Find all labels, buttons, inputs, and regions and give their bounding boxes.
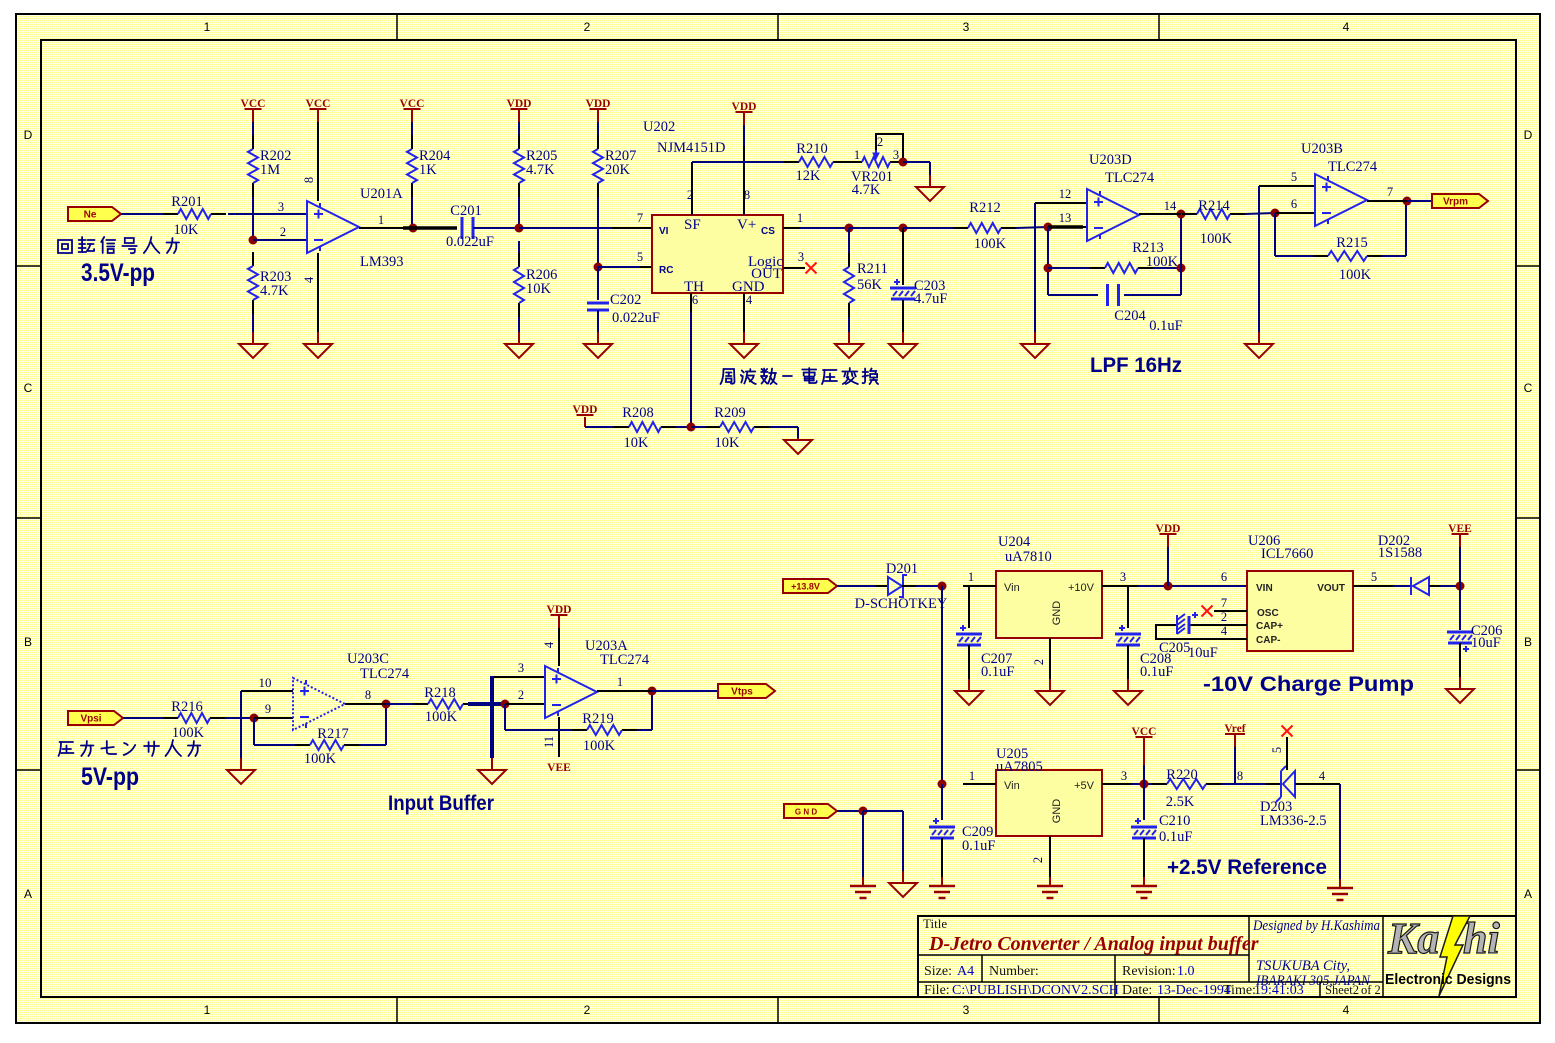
wire U203D output bbox=[1139, 213, 1181, 215]
node inverting input U201A bbox=[249, 236, 258, 245]
svg-text:1: 1 bbox=[617, 675, 623, 689]
svg-text:100K: 100K bbox=[1200, 231, 1233, 247]
wire R205 to node bbox=[518, 197, 520, 227]
svg-text:12: 12 bbox=[1059, 187, 1072, 201]
wire node to U203A pin2 bbox=[505, 703, 545, 705]
svg-text:-10V Charge Pump: -10V Charge Pump bbox=[1203, 673, 1414, 696]
pin 4 U201A bbox=[317, 253, 319, 332]
svg-text:100K: 100K bbox=[1339, 267, 1372, 283]
resistor R209 bbox=[705, 426, 720, 428]
ground (C203) bbox=[902, 332, 904, 344]
svg-text:B: B bbox=[24, 635, 32, 649]
op-amp U203C (dotted) bbox=[293, 678, 345, 730]
svg-text:8: 8 bbox=[1237, 769, 1243, 783]
resistor R210 bbox=[784, 161, 799, 163]
svg-text:GND: GND bbox=[1051, 799, 1063, 824]
svg-text:LPF 16Hz: LPF 16Hz bbox=[1090, 354, 1182, 377]
svg-text:RC: RC bbox=[659, 265, 673, 276]
svg-text:U203C: U203C bbox=[347, 651, 389, 667]
title block frame bbox=[918, 916, 1516, 997]
svg-text:TSUKUBA City,: TSUKUBA City, bbox=[1256, 958, 1350, 974]
wire U201A output bbox=[359, 227, 403, 229]
wire output to Vrpm bbox=[1407, 200, 1432, 202]
ground (C206) bbox=[1459, 677, 1461, 689]
U204 pin1 lead bbox=[963, 585, 996, 587]
svg-text:0.1uF: 0.1uF bbox=[1159, 829, 1192, 845]
wire node to R209 bbox=[691, 426, 705, 428]
wire D201 to node bbox=[916, 585, 942, 587]
svg-text:OSC: OSC bbox=[1257, 608, 1279, 619]
svg-text:R218: R218 bbox=[424, 685, 455, 701]
wire R216 to node bbox=[225, 717, 254, 719]
border row ticks bbox=[16, 265, 41, 267]
svg-text:G N D: G N D bbox=[795, 808, 817, 817]
node U203B pin6 bbox=[1271, 209, 1280, 218]
wire node to U202 pin5 bbox=[598, 266, 640, 268]
svg-text:TLC274: TLC274 bbox=[1328, 159, 1378, 175]
svg-text:R216: R216 bbox=[171, 699, 202, 715]
svg-text:Vrpm: Vrpm bbox=[1443, 197, 1468, 208]
wire to R212 bbox=[903, 227, 953, 229]
U204 pin3 lead bbox=[1102, 585, 1138, 587]
svg-text:13: 13 bbox=[1059, 211, 1072, 225]
svg-text:4.7uF: 4.7uF bbox=[914, 291, 947, 307]
U202 pin6 TH down bbox=[690, 293, 692, 312]
svg-text:Ne: Ne bbox=[84, 210, 97, 221]
diode D202 1S1588 bbox=[1393, 585, 1411, 587]
wire R204 to output node bbox=[411, 197, 413, 228]
svg-text:12K: 12K bbox=[796, 168, 822, 184]
wire U203C output bbox=[345, 703, 386, 705]
node R213 right bbox=[1177, 264, 1186, 273]
op-amp U203B bbox=[1315, 174, 1367, 226]
svg-text:10uF: 10uF bbox=[1188, 645, 1218, 661]
svg-text:D201: D201 bbox=[886, 561, 918, 577]
ground (VR201) bbox=[929, 175, 931, 187]
resistor R216 bbox=[163, 717, 178, 719]
node U203A pin2 bbox=[501, 700, 510, 709]
svg-text:10K: 10K bbox=[715, 435, 741, 451]
ground (R211) bbox=[848, 332, 850, 344]
svg-text:R217: R217 bbox=[317, 726, 348, 742]
resistor R208 bbox=[614, 426, 629, 428]
node RC bbox=[594, 263, 603, 272]
svg-text:R201: R201 bbox=[171, 194, 202, 210]
wire D202 to VEE node bbox=[1440, 585, 1460, 587]
svg-text:C: C bbox=[1524, 381, 1533, 395]
C205 bracket to pin4 bbox=[1156, 625, 1247, 639]
node TH divider bbox=[687, 423, 696, 432]
svg-text:R208: R208 bbox=[622, 405, 653, 421]
svg-text:7: 7 bbox=[1221, 596, 1227, 610]
node VCC tap bbox=[1140, 780, 1149, 789]
svg-text:3: 3 bbox=[798, 250, 804, 264]
svg-text:Number:: Number: bbox=[989, 964, 1039, 979]
wire Vpsi to R216 bbox=[123, 717, 163, 719]
svg-text:100K: 100K bbox=[304, 751, 337, 767]
svg-text:NJM4151D: NJM4151D bbox=[657, 140, 725, 156]
resistor R201 bbox=[163, 213, 178, 215]
wire R208 to TH node bbox=[676, 426, 691, 428]
U203A pin11 wire bbox=[558, 717, 560, 757]
svg-text:TLC274: TLC274 bbox=[600, 652, 650, 668]
earth ground (C210) bbox=[1143, 877, 1145, 886]
wire pin10 to ground bbox=[240, 691, 242, 758]
resistor R202 bbox=[252, 135, 254, 149]
node U203C output bbox=[382, 700, 391, 709]
capacitor C209 bbox=[941, 784, 943, 820]
svg-text:CAP+: CAP+ bbox=[1256, 621, 1283, 632]
border column ticks bbox=[396, 14, 398, 40]
wire R218 to pin2 node (thick) bbox=[468, 702, 505, 706]
svg-text:0.1uF: 0.1uF bbox=[1149, 318, 1182, 334]
svg-text:6: 6 bbox=[1221, 570, 1227, 584]
wire R203 to ground bbox=[252, 314, 254, 332]
wire R207 to RC node bbox=[597, 197, 599, 267]
svg-text:3: 3 bbox=[963, 1003, 970, 1017]
wire R220 to D203 bbox=[1221, 783, 1266, 785]
svg-text:+10V: +10V bbox=[1068, 582, 1095, 594]
svg-text:0.1uF: 0.1uF bbox=[981, 664, 1014, 680]
capacitor C202 bbox=[597, 267, 599, 300]
wire node to U203D pin13 (thick) bbox=[1048, 225, 1083, 229]
svg-text:100K: 100K bbox=[974, 236, 1007, 252]
node VDD tap bbox=[1164, 582, 1173, 591]
svg-text:4: 4 bbox=[746, 293, 753, 307]
ground (R206) bbox=[518, 332, 520, 344]
svg-text:U203D: U203D bbox=[1089, 152, 1132, 168]
svg-text:2: 2 bbox=[518, 688, 524, 702]
svg-text:U202: U202 bbox=[643, 119, 675, 135]
capacitor C205 bbox=[1188, 624, 1247, 626]
op-amp U201A bbox=[307, 201, 359, 253]
wire rail down to U205 bbox=[941, 586, 943, 784]
svg-text:10: 10 bbox=[259, 675, 272, 690]
svg-text:LM336-2.5: LM336-2.5 bbox=[1260, 813, 1326, 829]
wire pin4 to ground bbox=[1339, 784, 1341, 879]
svg-text:4: 4 bbox=[1343, 1003, 1350, 1017]
wire C201 to node bbox=[473, 227, 519, 229]
svg-text:7: 7 bbox=[1387, 185, 1393, 199]
svg-text:CAP-: CAP- bbox=[1256, 635, 1280, 646]
svg-text:C204: C204 bbox=[1114, 308, 1146, 324]
U205 pin3 lead bbox=[1102, 783, 1132, 785]
svg-text:R212: R212 bbox=[969, 200, 1000, 216]
wire U203B output bbox=[1367, 200, 1407, 202]
op-amp U203D bbox=[1087, 189, 1139, 241]
svg-text:CS: CS bbox=[761, 226, 775, 237]
svg-text:8: 8 bbox=[365, 688, 371, 702]
capacitor C204 bbox=[1048, 294, 1098, 296]
feedback vertical U203D bbox=[1047, 227, 1049, 295]
svg-text:2: 2 bbox=[1031, 857, 1045, 863]
resistor R211 bbox=[848, 228, 850, 253]
svg-text:R219: R219 bbox=[582, 711, 613, 727]
ground triangle (GND flag) bbox=[902, 871, 904, 883]
svg-text:6: 6 bbox=[1291, 197, 1297, 211]
wire flag to D201 bbox=[837, 585, 876, 587]
U203B pin5 wire bbox=[1259, 185, 1315, 187]
svg-text:C210: C210 bbox=[1159, 813, 1190, 829]
svg-text:D: D bbox=[24, 128, 33, 142]
net flag Ne bbox=[68, 207, 121, 221]
net flag Vtps bbox=[718, 684, 775, 698]
U206 pin5 lead bbox=[1353, 585, 1393, 587]
svg-text:VOUT: VOUT bbox=[1317, 583, 1345, 594]
svg-text:TLC274: TLC274 bbox=[1105, 170, 1155, 186]
svg-text:1K: 1K bbox=[419, 162, 437, 178]
resistor R214 bbox=[1182, 213, 1197, 215]
resistor R206 bbox=[518, 253, 520, 267]
svg-text:R210: R210 bbox=[796, 141, 827, 157]
svg-text:uA7810: uA7810 bbox=[1005, 549, 1052, 565]
svg-text:Revision:: Revision: bbox=[1122, 964, 1176, 979]
svg-text:C201: C201 bbox=[450, 203, 481, 219]
resistor R205 bbox=[518, 135, 520, 149]
svg-text:1M: 1M bbox=[260, 162, 280, 178]
wire pin3 to ground (thick) bbox=[490, 676, 494, 758]
svg-text:A4: A4 bbox=[957, 964, 974, 979]
svg-text:5V-pp: 5V-pp bbox=[81, 763, 139, 791]
feedback R219 loop bbox=[504, 704, 506, 730]
svg-text:Electronic Designs: Electronic Designs bbox=[1385, 971, 1511, 988]
svg-text:VEE: VEE bbox=[547, 762, 571, 774]
resistor R219 bbox=[572, 729, 587, 731]
wire C202 to ground bbox=[597, 310, 599, 332]
VR201 wiper arrow bbox=[875, 150, 877, 158]
ground (R203) bbox=[252, 332, 254, 344]
wire R202 to node bbox=[252, 197, 254, 240]
ground (C207) bbox=[968, 679, 970, 691]
node VEE rail bbox=[1456, 582, 1465, 591]
wire node to U203B pin6 bbox=[1275, 212, 1315, 214]
wire VDD to pin4 bbox=[558, 628, 560, 666]
svg-text:1: 1 bbox=[968, 570, 974, 584]
ground (U203B pin5) bbox=[1258, 332, 1260, 344]
svg-text:10K: 10K bbox=[174, 222, 200, 238]
svg-text:3: 3 bbox=[518, 661, 524, 675]
U204 pin2 lead bbox=[1049, 638, 1051, 679]
svg-text:2: 2 bbox=[1032, 659, 1046, 665]
svg-text:2: 2 bbox=[584, 20, 591, 34]
svg-text:Input Buffer: Input Buffer bbox=[388, 792, 494, 815]
svg-text:3.5V-pp: 3.5V-pp bbox=[81, 259, 155, 287]
wire pin5 to ground bbox=[1258, 186, 1260, 332]
svg-text:GND: GND bbox=[1051, 601, 1063, 626]
svg-text:+5V: +5V bbox=[1074, 780, 1095, 792]
resistor R220 bbox=[1152, 783, 1167, 785]
svg-text:3: 3 bbox=[963, 20, 970, 34]
svg-text:4: 4 bbox=[1221, 624, 1228, 638]
svg-text:R214: R214 bbox=[1198, 198, 1230, 214]
svg-text:0.1uF: 0.1uF bbox=[962, 838, 995, 854]
svg-text:D-SCHOTKEY: D-SCHOTKEY bbox=[855, 596, 948, 612]
wire pin3 to node bbox=[1132, 783, 1152, 785]
svg-text:1: 1 bbox=[378, 213, 384, 227]
svg-text:B: B bbox=[1524, 635, 1532, 649]
svg-text:2.5K: 2.5K bbox=[1166, 794, 1195, 810]
resistor R213 bbox=[1048, 267, 1090, 269]
svg-text:IBARAKI 305,JAPAN: IBARAKI 305,JAPAN bbox=[1255, 973, 1371, 989]
annotation frequency-voltage (kanji) bbox=[721, 368, 879, 384]
svg-text:U204: U204 bbox=[998, 534, 1031, 550]
ground (U203D pin12) bbox=[1034, 332, 1036, 344]
svg-text:U201A: U201A bbox=[360, 186, 403, 202]
svg-text:100K: 100K bbox=[583, 738, 616, 754]
wire node to C201 (thick) bbox=[403, 226, 457, 230]
wire R214 to pin6 node bbox=[1245, 213, 1275, 214]
op-amp U203A bbox=[545, 666, 597, 718]
ground (U201A pin4) bbox=[317, 332, 319, 344]
svg-text:TLC274: TLC274 bbox=[360, 666, 410, 682]
svg-text:Time:: Time: bbox=[1223, 983, 1256, 998]
earth ground (GND flag) bbox=[862, 877, 864, 886]
ground (U203C pin10) bbox=[240, 758, 242, 770]
svg-text:Size:: Size: bbox=[924, 964, 952, 979]
svg-text:R215: R215 bbox=[1336, 235, 1367, 251]
svg-text:14: 14 bbox=[1164, 199, 1177, 213]
diode D201 D-SCHOTKEY bbox=[876, 585, 888, 587]
net flag +13.8V bbox=[783, 579, 837, 593]
svg-text:4: 4 bbox=[1319, 769, 1326, 783]
svg-text:100K: 100K bbox=[425, 709, 458, 725]
node VR201 out bbox=[899, 158, 908, 167]
node VI divider bbox=[515, 224, 524, 233]
svg-text:C205: C205 bbox=[1159, 640, 1190, 656]
svg-text:5: 5 bbox=[1270, 747, 1284, 753]
node U203D output bbox=[1177, 210, 1186, 219]
svg-text:13-Dec-1994: 13-Dec-1994 bbox=[1157, 983, 1231, 998]
svg-text:2: 2 bbox=[584, 1003, 591, 1017]
wire VR201 to ground bbox=[903, 161, 930, 163]
resistor R215 bbox=[1313, 255, 1328, 257]
node +13.8V rail bbox=[938, 582, 947, 591]
D203 pin4 lead bbox=[1295, 783, 1340, 785]
svg-text:3: 3 bbox=[278, 200, 284, 214]
svg-text:3: 3 bbox=[1120, 570, 1126, 584]
svg-text:1: 1 bbox=[204, 1003, 211, 1017]
node U203B output bbox=[1403, 197, 1412, 206]
svg-text:1S1588: 1S1588 bbox=[1378, 545, 1422, 561]
svg-text:Designed by H.Kashima: Designed by H.Kashima bbox=[1252, 918, 1380, 934]
svg-text:20K: 20K bbox=[605, 162, 631, 178]
svg-text:uA7805: uA7805 bbox=[996, 759, 1043, 775]
wire node to U201A pin2 bbox=[253, 239, 307, 241]
logo lightning bolt bbox=[1439, 916, 1470, 996]
wire VDD elbow bbox=[584, 417, 586, 427]
wire pin3 to U206 pin6 bbox=[1138, 585, 1249, 587]
svg-text:5: 5 bbox=[1291, 170, 1297, 184]
svg-text:100K: 100K bbox=[172, 725, 205, 741]
capacitor C206 bbox=[1459, 586, 1461, 630]
svg-text:4.7K: 4.7K bbox=[260, 283, 289, 299]
svg-text:3: 3 bbox=[1121, 769, 1127, 783]
annotation rotation signal input (kanji) bbox=[58, 237, 179, 253]
wire output to R218 bbox=[386, 703, 413, 705]
resistor R218 bbox=[413, 703, 428, 705]
svg-text:5: 5 bbox=[637, 250, 643, 264]
node C203 bbox=[899, 224, 908, 233]
svg-text:A: A bbox=[24, 887, 32, 901]
svg-text:0.022uF: 0.022uF bbox=[612, 310, 660, 326]
svg-text:Vin: Vin bbox=[1004, 582, 1020, 594]
node U205 input bbox=[938, 780, 947, 789]
wire VDD to U202 pin8 bbox=[743, 125, 745, 146]
node GND bbox=[859, 807, 868, 816]
U202 pin1 CS wire bbox=[783, 227, 800, 229]
diode D203 LM336-2.5 bbox=[1266, 783, 1281, 785]
U203C pin10 wire bbox=[241, 690, 293, 692]
earth ground (D203) bbox=[1339, 879, 1341, 888]
node U201A output bbox=[409, 224, 418, 233]
U202 pin4 GND down bbox=[743, 293, 745, 332]
svg-text:Date:: Date: bbox=[1122, 983, 1152, 998]
resistor R217 bbox=[295, 744, 310, 746]
node R213 left bbox=[1044, 264, 1053, 273]
ground (U203A pin3) bbox=[491, 758, 493, 770]
svg-text:8: 8 bbox=[302, 177, 316, 183]
svg-text:10K: 10K bbox=[624, 435, 650, 451]
svg-text:2: 2 bbox=[877, 135, 883, 149]
earth ground (U205 pin2) bbox=[1049, 877, 1051, 886]
VR201 wiper bracket wire bbox=[876, 134, 903, 162]
wire GND node right bbox=[863, 810, 903, 812]
svg-text:+13.8V: +13.8V bbox=[791, 582, 820, 592]
svg-text:10K: 10K bbox=[526, 281, 552, 297]
node U203A output bbox=[648, 687, 657, 696]
wire Vref down bbox=[1234, 734, 1236, 747]
svg-text:4.7K: 4.7K bbox=[526, 162, 555, 178]
svg-text:0.022uF: 0.022uF bbox=[446, 234, 494, 250]
U202 pin3 no-connect bbox=[783, 267, 805, 269]
wire output to Vtps bbox=[652, 690, 718, 692]
U206 pin7 no-connect bbox=[1214, 610, 1247, 612]
D203 pin5 no-connect bbox=[1286, 737, 1288, 770]
wire CS run bbox=[849, 227, 903, 229]
capacitor C207 bbox=[968, 586, 970, 628]
svg-text:2: 2 bbox=[1221, 610, 1227, 624]
svg-text:7: 7 bbox=[637, 211, 643, 225]
svg-text:1: 1 bbox=[969, 769, 975, 783]
wire R206 to ground bbox=[518, 317, 520, 332]
capacitor C210 bbox=[1143, 784, 1145, 820]
wire R209 to ground bbox=[769, 426, 798, 428]
wire VCC to U201A pin8 bbox=[317, 122, 319, 201]
svg-text:LM393: LM393 bbox=[360, 254, 404, 270]
svg-text:4: 4 bbox=[302, 276, 316, 283]
IC U204 uA7810 bbox=[996, 571, 1102, 638]
svg-text:4: 4 bbox=[542, 641, 556, 648]
net flag Vpsi bbox=[68, 711, 123, 725]
resistor R207 bbox=[597, 135, 599, 149]
IC U206 ICL7660 bbox=[1247, 571, 1353, 651]
feedback R215 loop bbox=[1274, 213, 1276, 256]
svg-text:Vpsi: Vpsi bbox=[80, 714, 101, 725]
capacitor C208 bbox=[1127, 586, 1129, 628]
wire U203A output bbox=[597, 690, 652, 692]
svg-text:10uF: 10uF bbox=[1471, 635, 1501, 651]
annotation pressure sensor input (kanji) bbox=[59, 740, 201, 756]
U203D pin12 wire to ground bbox=[1035, 202, 1087, 204]
svg-text:C:\PUBLISH\DCONV2.SCH: C:\PUBLISH\DCONV2.SCH bbox=[952, 983, 1119, 998]
net flag Vrpm bbox=[1432, 194, 1488, 208]
svg-text:+2.5V Reference: +2.5V Reference bbox=[1167, 856, 1327, 879]
wire node to U203C pin9 bbox=[254, 717, 293, 719]
resistor R212 bbox=[953, 227, 968, 229]
wire Ne to U201A pin3 bbox=[121, 213, 165, 215]
svg-text:File:: File: bbox=[924, 983, 950, 998]
IC U202 NJM4151D bbox=[652, 215, 783, 293]
